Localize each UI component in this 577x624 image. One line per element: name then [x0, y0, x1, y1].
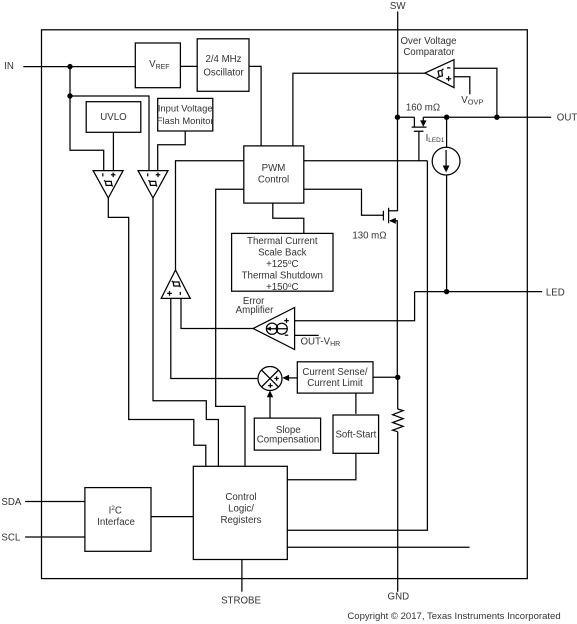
- svg-text:Interface: Interface: [97, 517, 135, 528]
- svg-text:Amplifier: Amplifier: [236, 305, 274, 316]
- pin GND wire: [397, 432, 399, 592]
- oscillator block: [197, 39, 249, 92]
- svg-text:I2C: I2C: [109, 505, 122, 516]
- wire slope compensation to multiplier with arrow: [267, 390, 273, 417]
- wire I2C to control logic: [151, 516, 193, 518]
- block Input Voltage Flash Monitor: [158, 98, 213, 131]
- svg-text:Thermal Current: Thermal Current: [247, 236, 318, 247]
- block Thermal: [232, 233, 333, 291]
- wire IN node down: [69, 67, 71, 96]
- svg-text:2/4 MHz: 2/4 MHz: [205, 54, 241, 65]
- svg-text:LED: LED: [546, 287, 565, 298]
- svg-text:Current Limit: Current Limit: [307, 378, 363, 389]
- block Control Logic / Registers: [193, 466, 287, 559]
- wire control logic dangling line: [287, 546, 469, 548]
- op-amp error amplifier: [253, 308, 295, 350]
- svg-text:UVLO: UVLO: [100, 112, 127, 123]
- node current source tap: [444, 115, 449, 120]
- transistor 130 mOhm FET: [383, 117, 397, 377]
- node branch: [67, 93, 72, 98]
- block PWM Control: [244, 146, 304, 203]
- svg-text:Comparator: Comparator: [403, 47, 455, 58]
- transistor 160 mOhm FET: [412, 117, 427, 161]
- wire current sense bottom to soft start: [355, 393, 357, 414]
- pin SW wire: [397, 11, 399, 117]
- pin SDA wire: [25, 501, 85, 503]
- multiplier summing node: [258, 367, 282, 391]
- wire T3 output up to PWM: [176, 161, 244, 270]
- svg-text:SDA: SDA: [1, 497, 21, 508]
- IC outline: [42, 30, 528, 579]
- svg-text:Scale Back: Scale Back: [258, 247, 307, 258]
- current source ILED1: [432, 117, 460, 291]
- wire flash monitor to comparator plus: [158, 131, 186, 171]
- block Soft-Start: [333, 415, 379, 453]
- wire UVLO to comparator plus: [112, 132, 114, 170]
- wire soft start bottom to control logic: [287, 453, 356, 479]
- svg-text:Registers: Registers: [221, 515, 262, 526]
- node on IN line: [67, 64, 72, 69]
- wire EA top input to LED line: [295, 292, 415, 321]
- wire EA bottom input stub: [295, 334, 319, 336]
- svg-text:PWM: PWM: [262, 163, 286, 174]
- svg-text:+125oC: +125oC: [266, 259, 298, 270]
- svg-text:VOVP: VOVP: [461, 95, 483, 107]
- comparator flash monitor: [138, 171, 168, 198]
- wire flash comparator output to control logic (W2): [153, 198, 218, 466]
- wire OVC plus input to VOVP: [454, 77, 470, 95]
- svg-text:Compensation: Compensation: [257, 435, 319, 446]
- svg-text:Copyright © 2017, Texas Instru: Copyright © 2017, Texas Instruments Inco…: [347, 611, 560, 622]
- svg-text:Thermal Shutdown: Thermal Shutdown: [242, 270, 323, 281]
- svg-text:SW: SW: [390, 1, 406, 12]
- wire multiplier to T3 plus: [171, 298, 258, 378]
- block UVLO: [86, 102, 141, 133]
- wire oscillator to PWM control: [249, 66, 261, 145]
- svg-text:Flash Monitor: Flash Monitor: [157, 115, 214, 126]
- comparator UVLO: [93, 171, 123, 198]
- svg-text:Input Voltage: Input Voltage: [158, 103, 213, 114]
- node OVP feedback: [494, 115, 499, 120]
- svg-text:+150oC: +150oC: [266, 282, 298, 293]
- wire current sense to multiplier with arrow: [282, 375, 297, 381]
- node sense: [395, 375, 400, 380]
- block I2C Interface: [85, 488, 151, 552]
- svg-text:GND: GND: [388, 592, 410, 603]
- svg-text:Over Voltage: Over Voltage: [400, 36, 456, 47]
- node SW-OUT: [395, 115, 400, 120]
- resistor sense: [393, 377, 404, 431]
- pin SCL wire: [25, 536, 85, 538]
- block Slope Compensation: [254, 418, 320, 450]
- wire OVC minus input from OUT: [454, 68, 497, 117]
- wire control logic to gate line: [287, 161, 427, 530]
- svg-text:OUT: OUT: [557, 112, 577, 123]
- wire PWM bottom to thermal block: [273, 203, 304, 233]
- svg-text:160 mΩ: 160 mΩ: [406, 103, 440, 114]
- wire PWM to gate node line: [304, 160, 428, 162]
- svg-text:Oscillator: Oscillator: [203, 67, 244, 78]
- wire node to UVLO comparator minus input: [70, 96, 104, 171]
- svg-text:Soft-Start: Soft-Start: [335, 429, 376, 440]
- svg-text:Control: Control: [258, 175, 289, 186]
- wire OUT line left segment: [398, 116, 415, 118]
- wire error amp output to T3 minus: [181, 298, 253, 328]
- wire OUT line right segment to OUT pin: [423, 116, 551, 118]
- wire VREF to oscillator: [180, 65, 197, 67]
- pin IN wire: [23, 66, 135, 68]
- svg-text:IN: IN: [4, 61, 14, 72]
- wire PWM to 130m gate: [304, 189, 384, 215]
- comparator PWM input (T3): [161, 270, 190, 298]
- node LED: [444, 289, 449, 294]
- wire UVLO comparator output to control logic (W1): [108, 198, 206, 466]
- wire PWM left input (W3) from control logic: [216, 189, 245, 466]
- regulator V_REF: [135, 43, 180, 88]
- svg-text:130 mΩ: 130 mΩ: [352, 231, 386, 242]
- block Current Sense / Current Limit: [297, 362, 373, 393]
- wire node to flash comparator minus input: [70, 96, 149, 171]
- svg-text:Current Sense/: Current Sense/: [302, 367, 367, 378]
- svg-text:Control: Control: [225, 492, 256, 503]
- svg-text:STROBE: STROBE: [221, 595, 261, 606]
- comparator over voltage: [425, 60, 454, 88]
- svg-text:Logic/: Logic/: [228, 504, 254, 515]
- pin STROBE wire: [241, 560, 243, 592]
- wire current sense right to sense node: [373, 376, 398, 378]
- svg-text:SCL: SCL: [1, 533, 20, 544]
- pin LED wire: [415, 291, 542, 293]
- wire OVC output to PWM: [293, 73, 425, 146]
